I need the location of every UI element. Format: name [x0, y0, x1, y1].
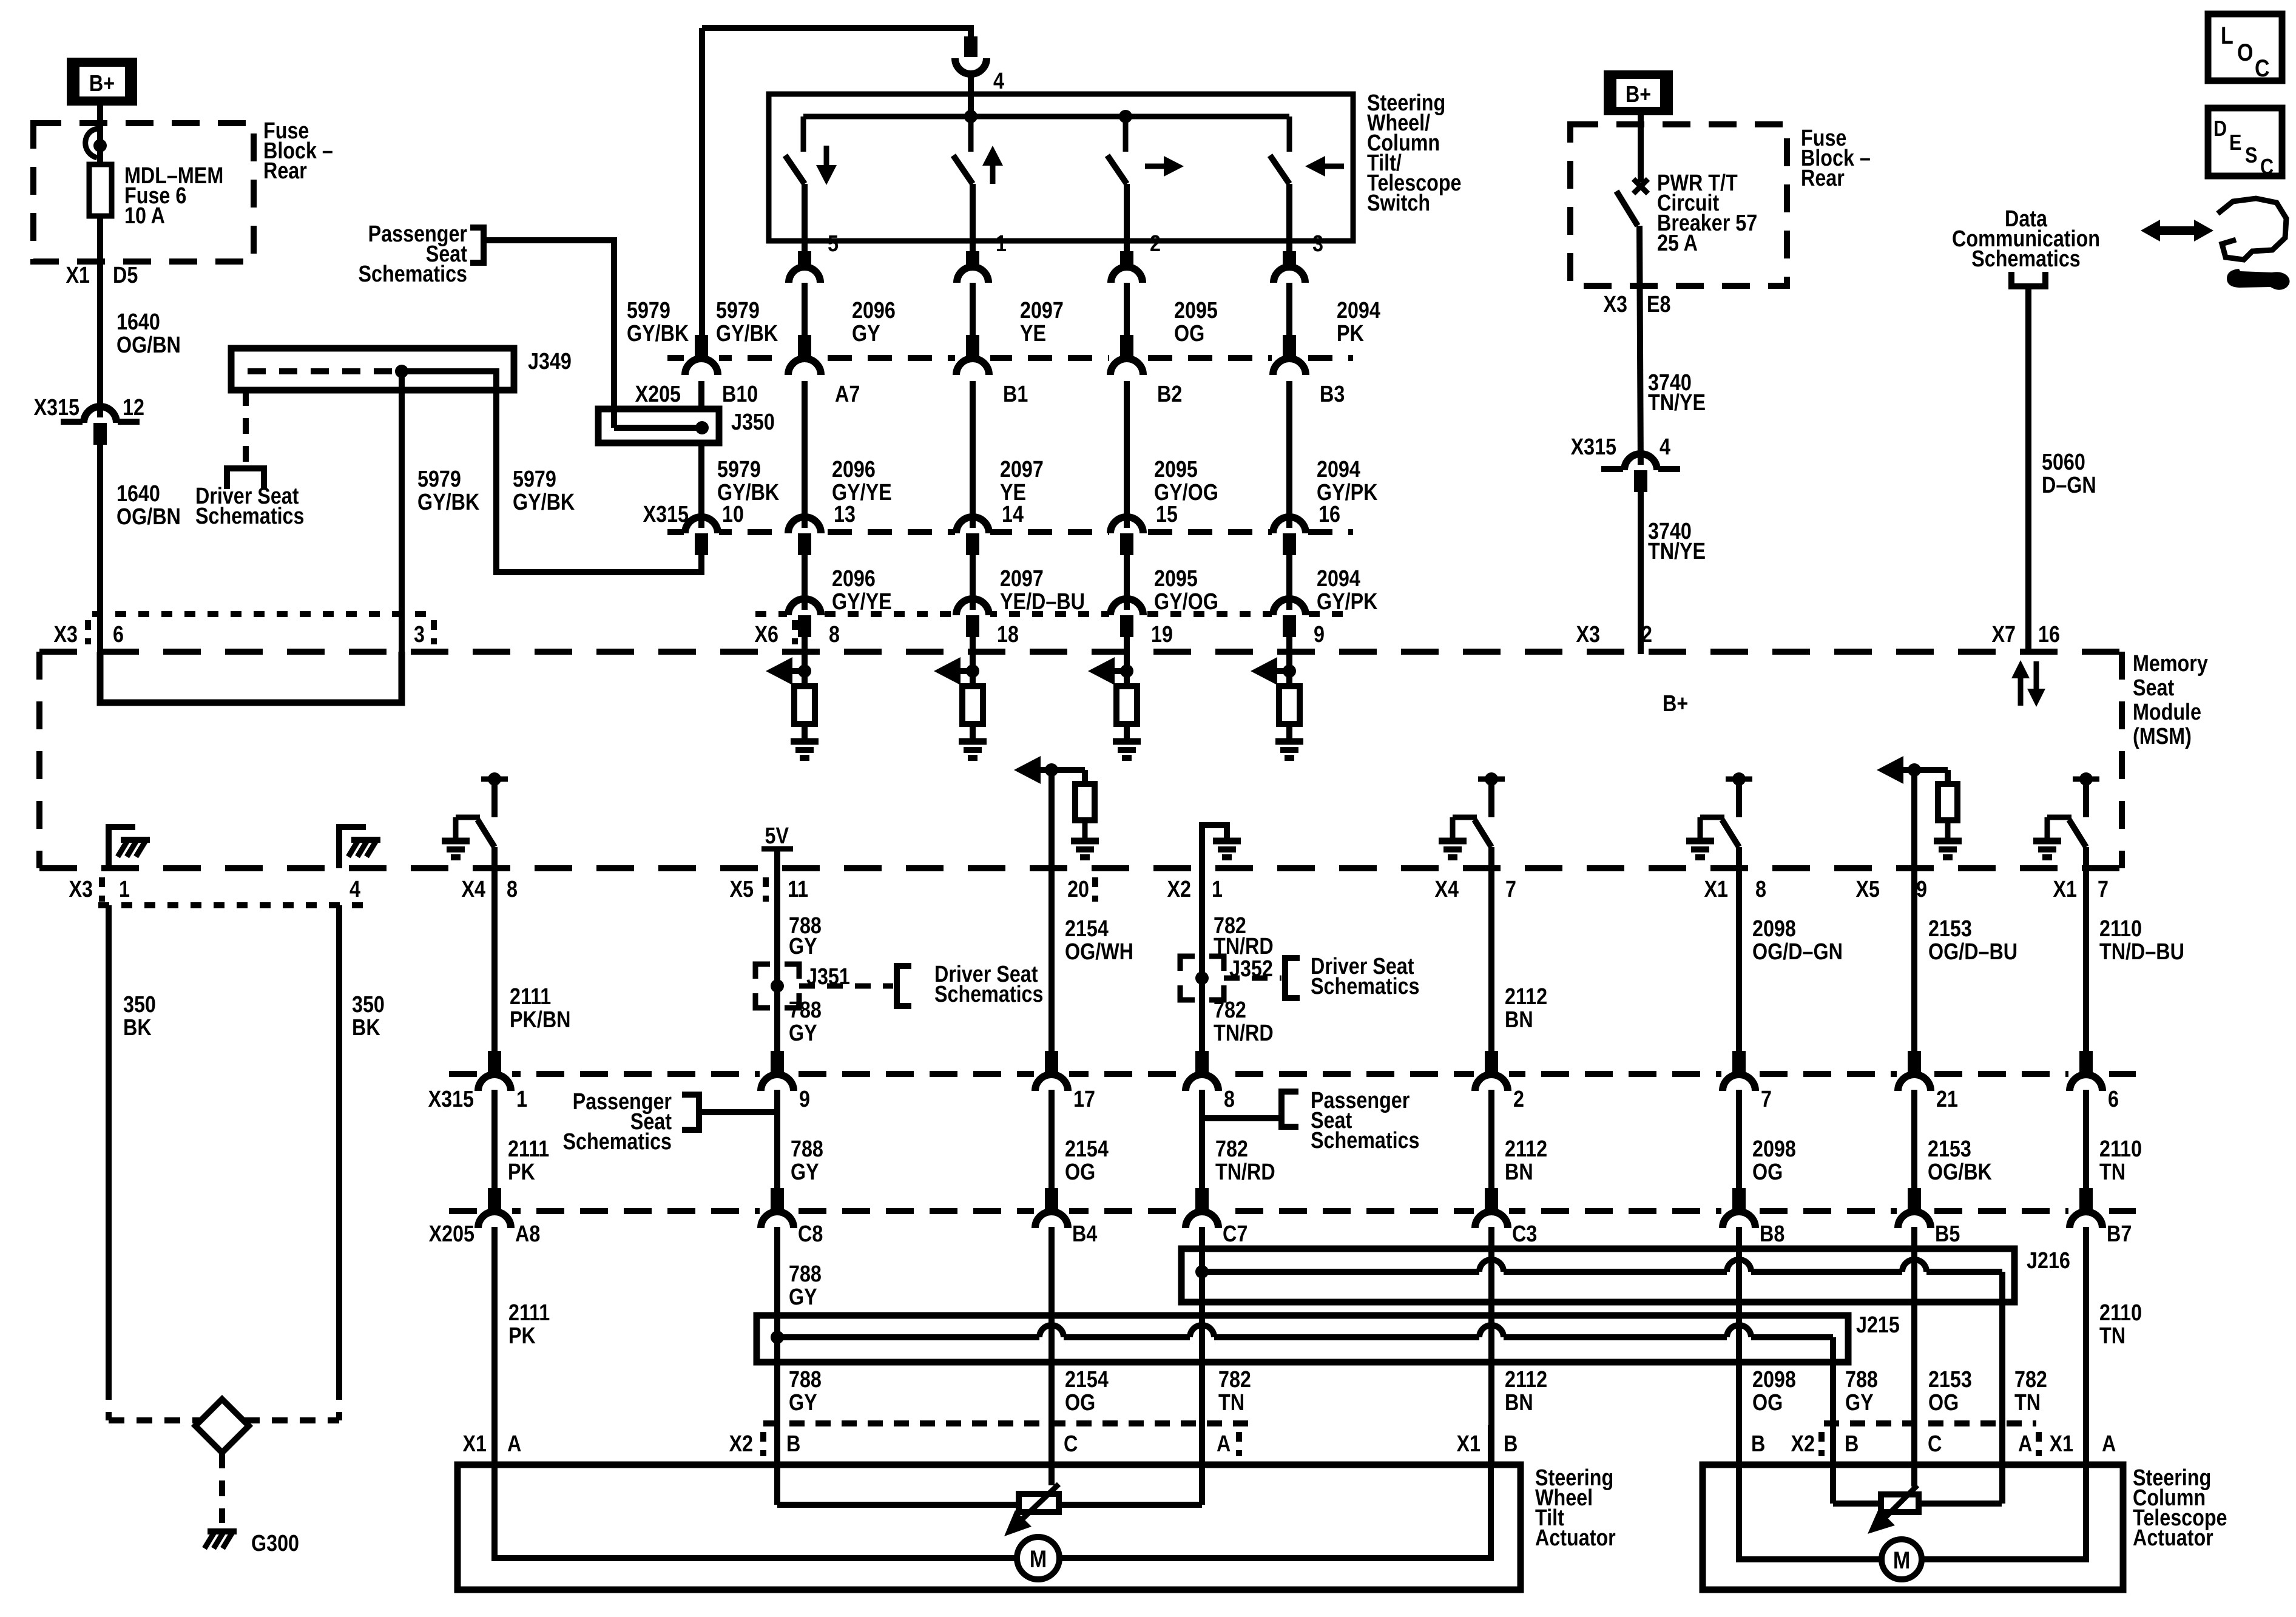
svg-text:X1: X1 [66, 263, 90, 288]
tick X5-11 [763, 877, 769, 902]
svg-text:GY: GY [852, 321, 880, 346]
connector X205 B3 [1272, 354, 1307, 362]
svg-text:2097: 2097 [1020, 298, 1064, 323]
MSM input ground 9 [1286, 724, 1292, 741]
svg-text:782: 782 [1218, 1367, 1251, 1393]
wire top feed [702, 28, 971, 38]
MSM output ground leg X4-8 [456, 815, 480, 820]
switch 4 output wire [1286, 184, 1292, 251]
svg-text:2098: 2098 [1752, 1367, 1796, 1393]
MSM output T-bar X1-8 [1726, 777, 1752, 782]
tilt pot wiper wire [1048, 1425, 1055, 1485]
svg-text:4: 4 [993, 69, 1004, 94]
wire 2111 PK/BN [491, 868, 498, 1052]
svg-text:B+: B+ [1663, 691, 1688, 717]
wire 2111 to X205 [491, 1090, 498, 1211]
connector X315 1 [477, 1070, 512, 1078]
wire 2153 to X205 [1911, 1090, 1917, 1211]
svg-text:350: 350 [352, 992, 385, 1018]
svg-text:4: 4 [349, 877, 360, 902]
fuse MDL-MEM Fuse 6 [89, 164, 112, 216]
svg-text:2112: 2112 [1505, 1136, 1547, 1162]
connector X315 8 [1184, 1070, 1220, 1078]
switch 3 blade [1107, 155, 1127, 184]
wire X6 18 into MSM [970, 637, 976, 671]
svg-text:B: B [786, 1431, 800, 1457]
svg-text:1640: 1640 [116, 309, 160, 335]
tilt actuator box [458, 1465, 1521, 1590]
svg-text:J350: J350 [731, 410, 775, 435]
junction dot J350 [695, 421, 709, 434]
wire pin 5 to X205 [802, 283, 808, 358]
svg-text:X3: X3 [69, 877, 93, 902]
connector X6 18 [955, 610, 990, 618]
wire X315-12 to X3-6 [97, 445, 103, 652]
svg-text:PK: PK [508, 1323, 536, 1349]
svg-text:X5: X5 [730, 877, 754, 902]
MSM input dot 9 [1283, 664, 1296, 678]
svg-text:Seat: Seat [2133, 675, 2174, 701]
wire B1 to X315 [970, 381, 976, 532]
svg-text:J215: J215 [1856, 1312, 1900, 1338]
MSM output ground X1-8 [1686, 838, 1714, 845]
MSM input ground 19 [1124, 724, 1130, 741]
wire B2 to X315 [1124, 381, 1130, 532]
svg-text:8: 8 [507, 877, 518, 902]
connector X205 B1 [955, 354, 990, 362]
tick X1 tele [2036, 1432, 2042, 1456]
svg-text:5060: 5060 [2042, 450, 2085, 475]
svg-text:782: 782 [1215, 1136, 1248, 1162]
svg-text:X315: X315 [34, 395, 79, 420]
switch 3 output wire [1124, 184, 1130, 251]
wire inside J350 [611, 408, 617, 428]
connector X315 14 [955, 528, 990, 536]
switch pin 2 stub [1120, 251, 1133, 267]
svg-text:2153: 2153 [1928, 1136, 1971, 1162]
wire breaker to X3-E8 [1639, 226, 1641, 470]
MSM 5V wire [774, 849, 780, 868]
MSM ground wire X3-4 [339, 827, 366, 868]
svg-text:788: 788 [791, 1136, 823, 1162]
svg-text:X1: X1 [1704, 877, 1728, 902]
svg-text:11: 11 [788, 877, 808, 902]
svg-text:X1: X1 [463, 1431, 487, 1457]
svg-text:TN: TN [2014, 1390, 2041, 1416]
MSM input motif arrow 8 [792, 668, 805, 674]
switch feed rail [803, 114, 1289, 120]
fuse block rear box (right dashed) [1570, 124, 1787, 286]
svg-text:2094: 2094 [1317, 457, 1360, 482]
connector X205 C8 [760, 1207, 795, 1215]
tele pot wiper arrow [1881, 1485, 1917, 1522]
motor M telescope [1882, 1539, 1922, 1579]
switch pin 5 arc [789, 267, 820, 283]
svg-text:10 A: 10 A [124, 203, 165, 229]
connector X315 21 [1897, 1070, 1932, 1078]
splice J352 brackets [1180, 956, 1195, 971]
wire 788 GY to J215 [774, 1227, 780, 1425]
wire passenger branch to 782 [1205, 1115, 1281, 1121]
svg-text:7: 7 [1505, 877, 1516, 902]
svg-text:12: 12 [123, 395, 144, 420]
svg-text:J216: J216 [2027, 1248, 2070, 1274]
svg-text:TN/RD: TN/RD [1215, 1160, 1275, 1185]
switch pin 3 stub [1283, 251, 1296, 267]
connector strip X3 bottom dotted [98, 902, 370, 908]
svg-text:OG/D–GN: OG/D–GN [1752, 939, 1843, 965]
svg-text:BK: BK [352, 1015, 380, 1041]
svg-text:3: 3 [414, 622, 425, 647]
dashed link J351 to bracket [799, 984, 893, 989]
connector X205 A7 [787, 354, 822, 362]
MSM box left edge [36, 652, 42, 868]
tool icon outline [2218, 198, 2286, 260]
wire 5060 into X7-16 [2025, 637, 2031, 654]
B+ power symbol (right) [1604, 70, 1673, 115]
svg-text:B+: B+ [1626, 82, 1651, 107]
wire 2110 TN low [2083, 1227, 2089, 1465]
MSM chassis ground X3-1 [121, 837, 150, 843]
svg-text:2153: 2153 [1928, 916, 1972, 942]
svg-text:2095: 2095 [1154, 566, 1198, 592]
svg-text:(MSM): (MSM) [2133, 724, 2192, 749]
svg-text:Module: Module [2133, 700, 2201, 725]
connector row X6 dotted line [755, 611, 1353, 617]
svg-text:OG/D–BU: OG/D–BU [1928, 939, 2017, 965]
svg-text:A: A [1217, 1431, 1231, 1457]
MSM serial data arrows [2018, 667, 2024, 706]
svg-text:788: 788 [789, 998, 822, 1023]
connector row X315 bottom dashed [449, 1071, 2136, 1077]
svg-text:GY/YE: GY/YE [832, 589, 892, 615]
passenger seat bracket top [470, 228, 484, 263]
wire 788 GY (X5-11) [774, 868, 780, 1052]
wire 788 to X205 [774, 1090, 780, 1211]
tick X6 [792, 620, 798, 644]
steering wheel switch box [769, 94, 1353, 241]
switch 4 blade [1270, 155, 1289, 184]
svg-text:782: 782 [2014, 1367, 2047, 1393]
svg-text:Schematics: Schematics [563, 1129, 672, 1155]
svg-text:2153: 2153 [1928, 1367, 1972, 1393]
connector X205 C7 [1184, 1207, 1220, 1215]
svg-text:TN/YE: TN/YE [1648, 539, 1706, 564]
rail junction dot 2 [1119, 110, 1132, 123]
svg-text:Schematics: Schematics [1971, 246, 2080, 272]
svg-text:2112: 2112 [1505, 1367, 1547, 1393]
svg-text:J349: J349 [528, 349, 572, 374]
MSM motif wire X5-9 [1911, 770, 1917, 868]
wire X6 9 into MSM [1286, 637, 1292, 671]
svg-text:1640: 1640 [116, 481, 160, 507]
svg-text:TN: TN [2099, 1323, 2125, 1349]
svg-text:OG: OG [1928, 1390, 1959, 1416]
wire 2112 BN low [1488, 1227, 1494, 1465]
tilt motor feed right [1059, 1425, 1491, 1558]
MSM input resistor 18 [970, 671, 976, 686]
svg-text:GY/BK: GY/BK [513, 490, 575, 515]
wire 788 GY from J215 to telescope [1830, 1362, 1836, 1425]
wire J349 dot to right leg [402, 371, 496, 390]
MSM motif ground X5-9 [1945, 820, 1951, 840]
connector X205 B2 [1109, 354, 1144, 362]
svg-text:5979: 5979 [513, 467, 556, 492]
data comm bracket [2011, 272, 2045, 286]
svg-text:9: 9 [799, 1087, 810, 1112]
svg-text:2154: 2154 [1065, 916, 1109, 942]
svg-text:2098: 2098 [1752, 916, 1796, 942]
switch 4 arrow left [1321, 164, 1344, 169]
connector X315 9 [760, 1070, 795, 1078]
svg-text:X4: X4 [462, 877, 486, 902]
wire B10 X205 to J350 [698, 381, 704, 409]
svg-text:TN/YE: TN/YE [1648, 390, 1706, 416]
connector strip X3 (top) dotted line [92, 611, 430, 617]
tele pot line [1830, 1425, 1836, 1504]
svg-text:YE/D–BU: YE/D–BU [1000, 589, 1085, 615]
MSM chassis ground X3-4 [351, 837, 380, 843]
wire X315-4 to X3-2 [1638, 492, 1644, 637]
wire 2153 OG/D-BU [1911, 868, 1917, 1052]
svg-text:2: 2 [1513, 1087, 1524, 1112]
MSM box top edge [39, 649, 2122, 655]
bracket driver seat J351 [897, 966, 911, 1006]
wire 3740 into X3-2 [1638, 637, 1644, 654]
wire 2110 to X205 [2083, 1090, 2089, 1211]
svg-text:5: 5 [828, 231, 839, 257]
junction dot J352 [1195, 971, 1209, 985]
svg-text:2096: 2096 [832, 457, 876, 482]
svg-text:15: 15 [1156, 502, 1178, 527]
svg-text:20: 20 [1067, 877, 1089, 902]
svg-text:GY/OG: GY/OG [1154, 589, 1218, 615]
tilt motor feed left [495, 1425, 1018, 1558]
wire pin 2 to X205 [1124, 283, 1130, 358]
connector X315 pin 12 [61, 419, 84, 425]
svg-text:2095: 2095 [1174, 298, 1218, 323]
svg-text:Schematics: Schematics [359, 262, 467, 287]
connector X205 A8 [477, 1207, 512, 1215]
connector X205 B10 [684, 354, 719, 362]
svg-text:16: 16 [2038, 622, 2060, 647]
svg-text:GY/PK: GY/PK [1317, 589, 1378, 615]
switch 4 input stub [1287, 116, 1292, 152]
wire 2110 TN/D-BU [2083, 868, 2089, 1052]
connector X205 B7 [2068, 1207, 2104, 1215]
MSM output ground leg X4-7 [1453, 815, 1477, 820]
wire pin 1 to X205 [970, 283, 976, 358]
svg-text:OG/WH: OG/WH [1065, 939, 1133, 965]
svg-text:Rear: Rear [1801, 166, 1845, 191]
dashed wire inside J349 [248, 368, 394, 374]
svg-text:TN: TN [2099, 1160, 2125, 1185]
svg-text:X1: X1 [2053, 877, 2077, 902]
svg-text:OG: OG [1065, 1160, 1095, 1185]
svg-text:PK/BN: PK/BN [510, 1007, 570, 1033]
svg-text:1: 1 [1212, 877, 1223, 902]
switch 3 arrow right [1145, 164, 1168, 169]
MSM output blade X1-7 [2069, 820, 2086, 847]
connector 4 stub [964, 36, 977, 57]
connector row X205 (top) dashed line [667, 355, 1353, 361]
wire 782 TN low [1199, 1227, 1205, 1425]
junction dot J351 [771, 979, 784, 993]
MSM output ground X4-7 [1439, 838, 1467, 845]
MSM input ground 18 [970, 724, 976, 741]
wire 15 to X6 [1124, 555, 1130, 614]
tick X3 top right [431, 620, 437, 644]
wire 782 TN/RD (X2-1) [1199, 868, 1205, 1052]
connector X315 pin 4 [1601, 466, 1624, 472]
connector X6 9 [1272, 610, 1307, 618]
svg-text:21: 21 [1936, 1087, 1958, 1112]
wire 5979 right leg to X315-10 [496, 390, 701, 572]
svg-text:BK: BK [123, 1015, 152, 1041]
tick X2 tele [1818, 1432, 1825, 1456]
svg-text:8: 8 [829, 622, 840, 647]
svg-text:B7: B7 [2107, 1221, 2132, 1247]
svg-text:Schematics: Schematics [934, 982, 1043, 1007]
svg-text:782: 782 [1214, 998, 1246, 1023]
MSM signal ground X2-1 [1202, 825, 1227, 868]
switch pin 3 arc [1274, 267, 1305, 283]
svg-text:2: 2 [1150, 231, 1161, 257]
svg-text:B10: B10 [722, 382, 758, 407]
MSM output blade X4-8 [478, 820, 495, 847]
connector X315 13 [787, 528, 822, 536]
svg-text:OG: OG [1065, 1390, 1095, 1416]
svg-text:E8: E8 [1647, 292, 1670, 317]
MSM input resistor 8 [802, 671, 808, 686]
connector X205 B5 [1897, 1207, 1932, 1215]
splice box J350 [598, 409, 719, 443]
MSM output stem X1-8 [1736, 779, 1742, 817]
connector X315 15 [1109, 528, 1144, 536]
tele motor feed right [1921, 1425, 2086, 1559]
svg-text:L: L [2221, 21, 2234, 49]
svg-text:2110: 2110 [2099, 1136, 2142, 1162]
MSM output wire X4-8 [491, 847, 498, 868]
wire pin 4 into switch box [968, 73, 974, 116]
svg-text:5979: 5979 [717, 457, 761, 482]
svg-text:C: C [1928, 1431, 1942, 1457]
wire 2154 to X205 [1048, 1090, 1055, 1211]
svg-text:C: C [2255, 54, 2270, 81]
svg-text:B8: B8 [1760, 1221, 1784, 1247]
svg-text:2097: 2097 [1000, 457, 1044, 482]
svg-text:B5: B5 [1935, 1221, 1960, 1247]
switch pin 2 arc [1111, 267, 1143, 283]
wire 2112 to X205 [1488, 1090, 1494, 1211]
MSM input dot 18 [966, 664, 979, 678]
svg-text:X1: X1 [1457, 1431, 1481, 1457]
svg-text:2098: 2098 [1752, 1136, 1796, 1162]
MSM input motif arrow 9 [1277, 668, 1289, 674]
svg-text:GY: GY [789, 934, 817, 959]
wire fuse to X315-12 [97, 216, 103, 422]
breaker X symbol [1633, 179, 1648, 194]
switch pin 5 stub [798, 251, 811, 267]
tool icon arrows [2151, 226, 2200, 235]
rail junction dot 1 [964, 110, 977, 123]
svg-text:GY: GY [789, 1284, 817, 1310]
svg-text:D–GN: D–GN [2042, 473, 2096, 498]
svg-text:788: 788 [1845, 1367, 1878, 1393]
MSM output ground leg X1-8 [1700, 815, 1724, 820]
MSM input motif arrow 18 [961, 668, 973, 674]
wire pin 3 to X205 [1286, 283, 1292, 358]
MSM output ground X1-7 [2033, 838, 2061, 845]
connector X315 7 [1721, 1070, 1757, 1078]
MSM output stem X4-7 [1488, 779, 1494, 817]
wire B10 top [699, 28, 705, 358]
connector row X2 tilt dashed [763, 1420, 1254, 1426]
wire 2154 OG low [1048, 1227, 1055, 1425]
svg-text:GY/BK: GY/BK [417, 490, 480, 515]
tick X3 bottom [99, 877, 105, 902]
svg-text:B: B [1751, 1431, 1765, 1457]
svg-text:18: 18 [997, 622, 1019, 647]
svg-text:X3: X3 [1576, 622, 1600, 647]
svg-text:A: A [507, 1431, 521, 1457]
MSM input ground 8 [802, 724, 808, 741]
svg-text:X3: X3 [54, 622, 78, 647]
svg-text:X1: X1 [2050, 1431, 2073, 1457]
svg-text:2097: 2097 [1000, 566, 1044, 592]
svg-text:Schematics: Schematics [1311, 974, 1419, 999]
switch 2 output wire [970, 184, 976, 251]
svg-text:A8: A8 [515, 1221, 540, 1247]
MSM output wire X1-8 [1736, 847, 1742, 868]
connector row X205 bottom dashed [449, 1208, 2136, 1214]
svg-text:YE: YE [1020, 321, 1046, 346]
MSM input dot 8 [798, 664, 811, 678]
wire 350 BK x179 [106, 905, 112, 1384]
svg-text:OG: OG [1752, 1390, 1783, 1416]
MSM output wire X4-7 [1488, 847, 1494, 868]
svg-text:M: M [1030, 1545, 1047, 1572]
G300 dashed drop [219, 1453, 225, 1523]
MSM output blade X1-8 [1722, 820, 1739, 847]
svg-text:B4: B4 [1072, 1221, 1098, 1247]
svg-text:6: 6 [2108, 1087, 2119, 1112]
svg-text:B3: B3 [1320, 382, 1345, 407]
tilt pot wiper arrow [1017, 1484, 1059, 1524]
MSM input resistor 9 [1286, 671, 1292, 686]
splice box J215 [757, 1315, 1848, 1362]
svg-text:2094: 2094 [1337, 298, 1380, 323]
MSM motif dot X5-9 [1908, 763, 1921, 777]
svg-text:X2: X2 [1167, 877, 1191, 902]
switch 3 input stub [1123, 116, 1129, 152]
svg-text:Switch: Switch [1367, 191, 1430, 216]
svg-text:5979: 5979 [716, 298, 760, 323]
MSM ground wire X3-1 [109, 827, 135, 868]
switch 2 blade [953, 155, 973, 184]
wire 13 to X6 [802, 555, 808, 614]
svg-text:OG/BK: OG/BK [1928, 1160, 1992, 1185]
connector X315 2 [1474, 1070, 1509, 1078]
svg-text:S: S [2245, 144, 2257, 168]
MSM motif resistor pin20 [1082, 770, 1088, 784]
svg-text:A: A [2102, 1431, 2116, 1457]
svg-text:B: B [1504, 1431, 1518, 1457]
svg-text:GY: GY [1845, 1390, 1874, 1416]
connector X205 B8 [1721, 1207, 1757, 1215]
svg-text:BN: BN [1505, 1007, 1533, 1033]
MSM output T-bar X4-8 [481, 777, 508, 782]
